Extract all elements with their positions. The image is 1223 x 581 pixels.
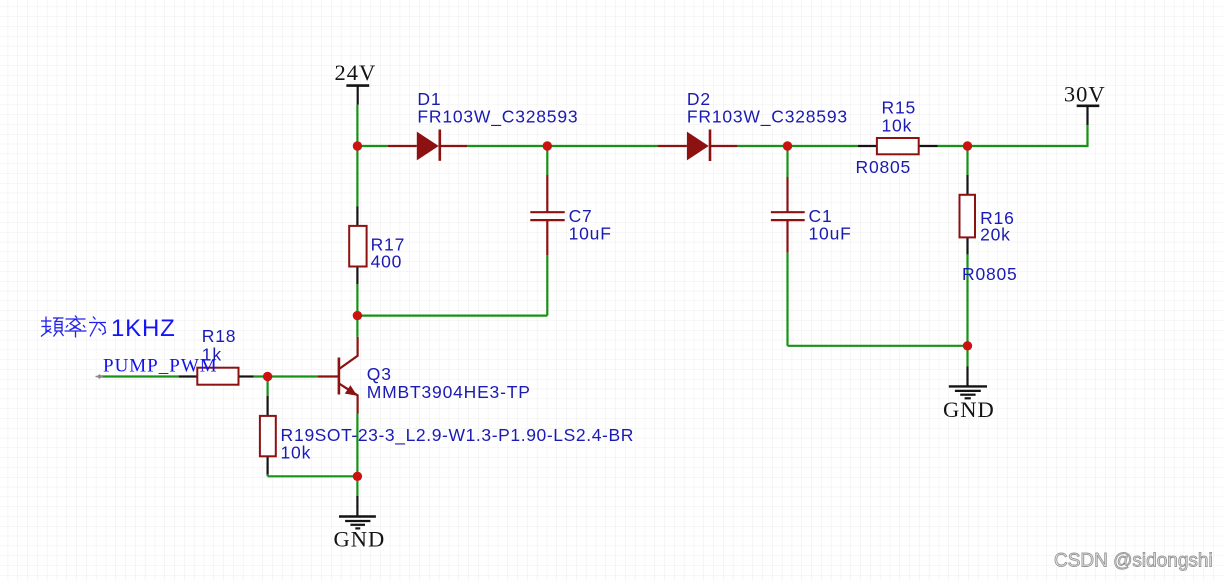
svg-text:GND: GND [334,526,386,551]
svg-text:SOT-23-3_L2.9-W1.3-P1.90-LS2.4: SOT-23-3_L2.9-W1.3-P1.90-LS2.4-BR [315,425,634,446]
svg-text:10uF: 10uF [569,224,612,244]
svg-text:1KHZ: 1KHZ [111,315,176,342]
svg-text:20k: 20k [980,225,1011,245]
svg-text:10k: 10k [882,115,913,135]
svg-text:MMBT3904HE3-TP: MMBT3904HE3-TP [367,382,531,402]
svg-text:10uF: 10uF [809,224,852,244]
svg-text:24V: 24V [335,60,377,85]
svg-text:30V: 30V [1064,82,1106,107]
svg-text:Q3: Q3 [367,364,392,384]
svg-text:PUMP_PWM: PUMP_PWM [103,355,218,376]
svg-text:GND: GND [943,397,995,422]
svg-text:FR103W_C328593: FR103W_C328593 [687,107,848,128]
svg-text:R18: R18 [202,326,237,346]
svg-text:R0805: R0805 [962,264,1018,284]
svg-text:CSDN @sidongshi: CSDN @sidongshi [1054,551,1213,572]
svg-text:R0805: R0805 [856,157,912,177]
svg-text:400: 400 [371,251,403,271]
svg-text:10k: 10k [281,442,312,462]
svg-text:FR103W_C328593: FR103W_C328593 [417,107,578,128]
